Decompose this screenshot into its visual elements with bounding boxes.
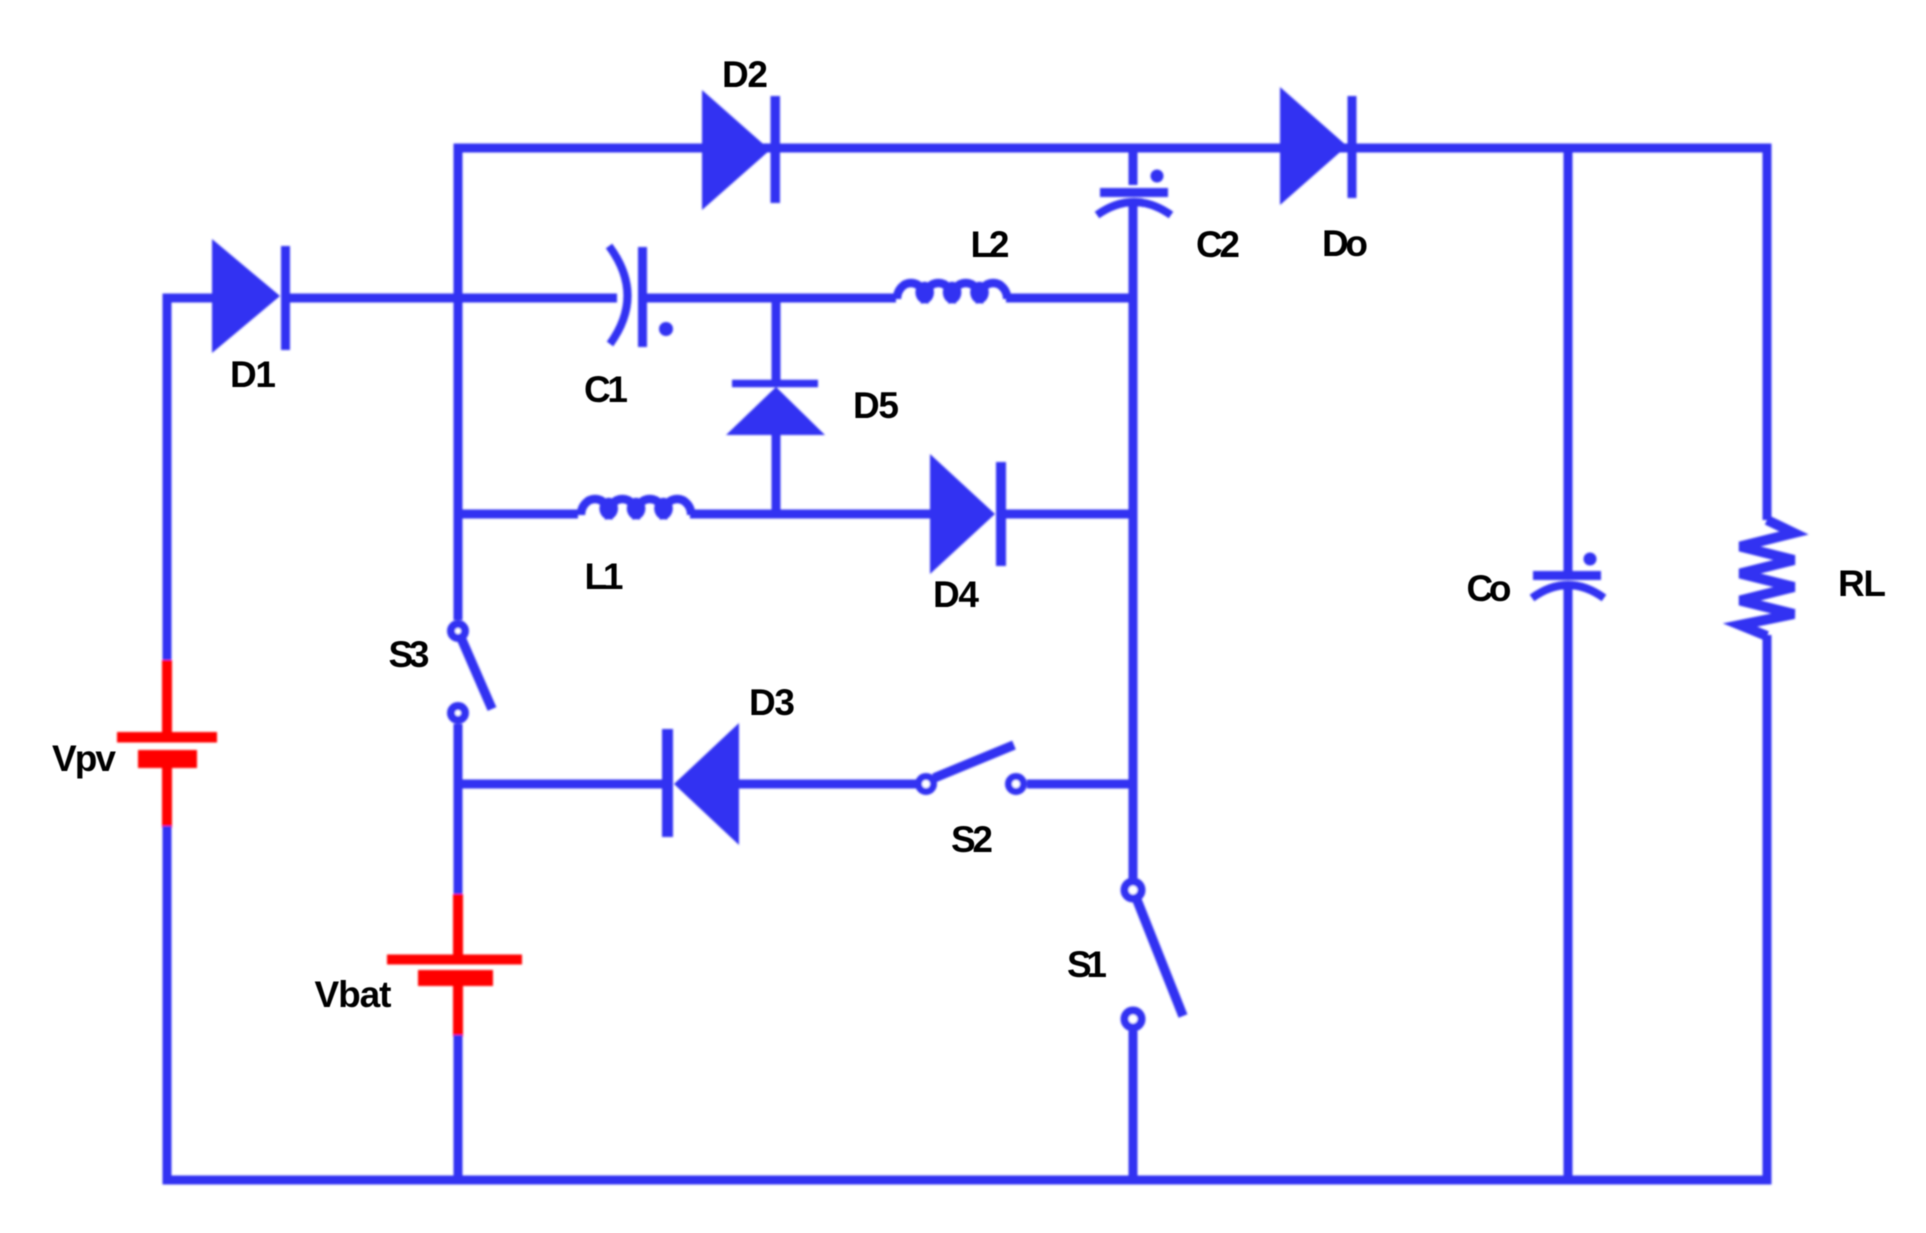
svg-text:RL: RL [1838,563,1886,604]
switch S1 [1125,882,1184,1028]
diode D2 [702,90,780,210]
inductor L2 [897,283,1007,299]
wire C1 to L2 [645,294,896,303]
diode Do [1280,87,1357,205]
switch S2 [919,745,1024,792]
wire D1 row left stub [163,294,217,303]
switch S3 [451,624,492,720]
wire branch x1133 middle [1129,206,1138,878]
wire S1 to bottom bus [1129,1031,1138,1185]
wire S3 to D3 node [454,724,463,896]
diode D1 [212,239,290,353]
resistor RL [1740,520,1794,636]
svg-text:L1: L1 [585,556,624,597]
wire left side below Vpv [163,826,172,1185]
diode D5 [726,384,825,436]
capacitor C1 [609,246,673,347]
svg-text:Co: Co [1467,568,1512,609]
svg-text:D1: D1 [230,354,276,395]
svg-text:C2: C2 [1196,224,1240,265]
wire L2 to C2 branch [1006,294,1138,303]
svg-text:L2: L2 [971,224,1010,265]
battery Vpv [117,660,217,828]
svg-text:C1: C1 [584,369,628,410]
wire branch x1568 top [1564,144,1573,572]
wire branch x1568 bottom [1564,589,1573,1185]
capacitor Co [1532,553,1604,599]
wire D5 anode up [772,294,781,382]
svg-text:Do: Do [1322,223,1368,264]
wire L1 row left [458,510,578,519]
wire D5 cathode down [772,433,781,519]
svg-text:D3: D3 [749,682,795,723]
svg-text:Vbat: Vbat [315,974,392,1015]
wire Vbat to bottom bus [454,1035,463,1185]
wire right side upper [1763,148,1772,520]
wire D4 to branch [1001,510,1138,519]
wire branch x458 top [454,144,463,621]
svg-text:D2: D2 [722,54,768,95]
diode D4 [930,454,1006,574]
svg-text:S3: S3 [389,634,430,675]
diode D3 [662,723,739,845]
wire left side [163,294,172,663]
inductor L1 [581,499,691,515]
wire D3 to S2 [737,780,916,789]
svg-text:Vpv: Vpv [52,738,116,779]
wire top bus [454,144,1772,153]
wire D3 row left [458,780,663,789]
wire bottom bus [163,1176,1772,1185]
svg-text:D5: D5 [853,385,899,426]
capacitor C2 [1097,170,1171,216]
svg-text:D4: D4 [933,574,979,615]
wire right side lower [1763,635,1772,1185]
svg-text:S1: S1 [1067,944,1107,985]
wire S2 to branch [1027,780,1138,789]
wire branch x1133 top [1129,144,1138,185]
wire L1 to D4 [690,510,932,519]
battery Vbat [387,894,522,1037]
svg-text:S2: S2 [951,819,993,860]
wire D1 to C1 [285,294,617,303]
